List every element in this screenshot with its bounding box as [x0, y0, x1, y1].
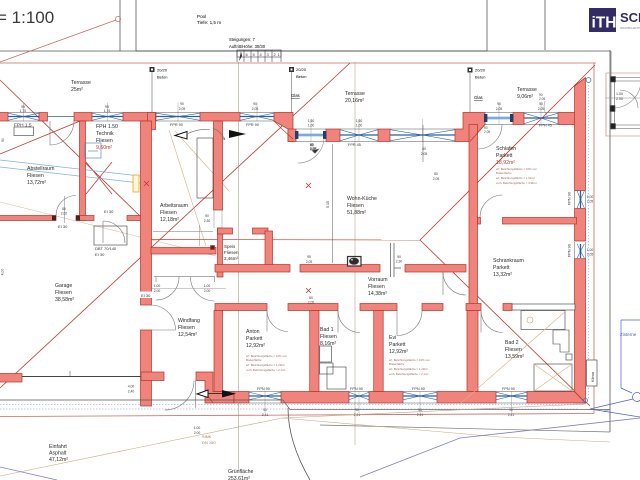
- klima box: [587, 360, 598, 386]
- svg-text:2,41: 2,41: [262, 413, 269, 417]
- wall miter lines: [205, 78, 586, 404]
- technik X: [86, 162, 112, 194]
- svg-text:Beton: Beton: [157, 75, 167, 80]
- red sub texts: [246, 167, 537, 376]
- svg-text:1,00: 1,00: [308, 124, 315, 128]
- bad2 tub: [534, 364, 572, 391]
- svg-text:EI 30: EI 30: [58, 224, 68, 229]
- svg-text:Bad 1: Bad 1: [320, 327, 334, 333]
- svg-text:EI 30: EI 30: [95, 252, 105, 257]
- door schlafen-schrankraum: [480, 195, 503, 218]
- garage long diagonal: [0, 63, 350, 388]
- svg-text:2,05: 2,05: [433, 177, 440, 181]
- svg-text:2,41: 2,41: [354, 413, 361, 417]
- svg-text:80: 80: [62, 207, 66, 211]
- svg-text:FPR 90: FPR 90: [246, 123, 259, 127]
- bedroom divider anton/bad1: [310, 311, 319, 392]
- svg-text:13,72m²: 13,72m²: [27, 180, 46, 186]
- svg-text:Beton: Beton: [296, 74, 306, 79]
- svg-text:1.00: 1.00: [204, 284, 211, 288]
- svg-text:90: 90: [397, 255, 401, 259]
- svg-text:1.00: 1.00: [194, 426, 201, 430]
- technik blue box: [85, 143, 101, 158]
- svg-text:Fliesen: Fliesen: [27, 173, 44, 179]
- svg-text:47,12m²: 47,12m²: [49, 457, 68, 463]
- dashed blue lines: [0, 82, 589, 409]
- svg-text:Wohn-Küche: Wohn-Küche: [347, 196, 377, 202]
- vertical wall abstell/technik: [80, 121, 86, 221]
- window S2: [349, 392, 369, 400]
- red property rectangle: [0, 63, 596, 417]
- svg-text:FPR 45: FPR 45: [348, 143, 361, 147]
- garage south wall stub: [0, 374, 22, 383]
- anton west wall: [214, 311, 223, 392]
- light blue utility diagonals: [0, 160, 140, 176]
- svg-text:9,60m²: 9,60m²: [96, 145, 112, 151]
- arbeitsraum desk: [197, 138, 213, 198]
- svg-text:90: 90: [539, 102, 543, 106]
- svg-text:1,00: 1,00: [587, 248, 594, 252]
- window A5: [240, 113, 274, 120]
- svg-text:80: 80: [434, 172, 438, 176]
- svg-text:vorh. Belichtungsfläche = 2,1m: vorh. Belichtungsfläche = 2,1m²: [246, 368, 285, 372]
- svg-text:20/20: 20/20: [157, 68, 168, 73]
- stove box on wall: [348, 257, 362, 267]
- svg-text:FPH 1.50: FPH 1.50: [96, 124, 118, 130]
- svg-text:SCH: SCH: [620, 10, 640, 25]
- schlafen south wall: [478, 218, 481, 225]
- windfang west long wall lower: [141, 330, 152, 406]
- garage north wall: [0, 216, 56, 221]
- svg-text:2,46m²: 2,46m²: [224, 256, 239, 261]
- svg-text:5.15: 5.15: [326, 201, 330, 208]
- svg-text:2.00: 2.00: [154, 289, 161, 293]
- svg-text:SINK: SINK: [202, 434, 212, 439]
- svg-text:Schrankraum: Schrankraum: [493, 258, 524, 264]
- door EI30 abstellraum-garage: [56, 196, 76, 216]
- svg-text:1,50: 1,50: [356, 119, 363, 123]
- wall B blocks: [288, 129, 296, 142]
- schrankraum south wall thin band: [512, 304, 575, 310]
- door garage-windfang: [151, 305, 176, 330]
- svg-text:DN 150: DN 150: [202, 440, 216, 445]
- window S4: [496, 392, 527, 400]
- svg-text:EI 30: EI 30: [141, 293, 151, 298]
- svg-text:iTH: iTH: [592, 15, 617, 32]
- svg-text:13,59m²: 13,59m²: [505, 354, 524, 360]
- svg-text:9,06m²: 9,06m²: [517, 94, 533, 100]
- door arc below B1 glass: [298, 138, 324, 163]
- section line vertical 1: [238, 62, 240, 470]
- bad2 wc niche: [553, 330, 569, 352]
- driveway curve: [288, 408, 310, 480]
- svg-text:2.00: 2.00: [616, 97, 623, 101]
- svg-text:Fliesen: Fliesen: [347, 203, 364, 209]
- svg-text:Steigungen: 7: Steigungen: 7: [229, 37, 256, 42]
- svg-text:90: 90: [497, 102, 501, 106]
- left sight diagonal: [0, 80, 141, 217]
- svg-text:90: 90: [509, 408, 513, 412]
- svg-text:Fliesen: Fliesen: [55, 290, 72, 296]
- svg-text:Terrasse: Terrasse: [345, 91, 365, 97]
- window B1: [295, 131, 326, 139]
- window R2: [577, 244, 584, 258]
- technik door glazing line: [48, 116, 75, 118]
- svg-text:8,16m²: 8,16m²: [320, 341, 336, 347]
- svg-text:FPH 1.5: FPH 1.5: [14, 123, 32, 129]
- schlafen north wall blocks: [513, 113, 524, 125]
- windfang double doors passage line: [154, 276, 215, 278]
- bad2 vanity: [521, 311, 565, 330]
- terrace post 3: [468, 68, 486, 113]
- door jamb caps garage: [52, 216, 56, 221]
- terrace post 2: [289, 67, 307, 129]
- door carport: [620, 90, 638, 108]
- svg-text:EI 30: EI 30: [104, 209, 114, 214]
- svg-text:Bad 2: Bad 2: [505, 340, 519, 346]
- windfang south wall: [141, 372, 164, 381]
- svg-text:Abstellraum: Abstellraum: [27, 166, 54, 172]
- svg-text:Schlafen: Schlafen: [496, 146, 516, 152]
- bad1 fixtures: [320, 346, 332, 362]
- svg-text:FPN 90: FPN 90: [568, 244, 572, 257]
- svg-text:Fliesen: Fliesen: [505, 347, 522, 353]
- door wohnkueche-corridor east: [443, 272, 466, 295]
- speis top stubs: [218, 228, 233, 234]
- svg-text:2.00: 2.00: [204, 289, 211, 293]
- svg-text:DBT 70/140: DBT 70/140: [95, 246, 117, 251]
- svg-text:Grünfläche: Grünfläche: [228, 469, 253, 475]
- svg-text:Fliesen: Fliesen: [178, 325, 195, 331]
- svg-text:FPN 90: FPN 90: [350, 387, 363, 391]
- svg-text:vorh. Belichtungsfläche = 2,1m: vorh. Belichtungsfläche = 2,1m²: [389, 372, 428, 376]
- svg-text:20/20: 20/20: [296, 67, 307, 72]
- red ray top-right to vertex: [420, 65, 595, 240]
- svg-text:IMMOBILIENTREUH: IMMOBILIENTREUH: [620, 26, 640, 30]
- svg-text:Windfang: Windfang: [178, 318, 200, 324]
- svg-text:1,76: 1,76: [20, 109, 27, 113]
- svg-text:Fliesen: Fliesen: [160, 210, 177, 216]
- svg-text:2,40: 2,40: [128, 390, 135, 394]
- window B3: [390, 130, 455, 141]
- svg-text:Vorraum: Vorraum: [368, 277, 388, 283]
- window labels: [14, 123, 572, 392]
- bedroom divider bad1/evi: [374, 311, 384, 392]
- svg-text:Parkett: Parkett: [389, 342, 406, 348]
- dim box under wall A1: [14, 127, 34, 136]
- svg-text:erf. Belichtungsfläche = 1,91m: erf. Belichtungsfläche = 1,91m²: [496, 176, 535, 180]
- svg-text:2,41: 2,41: [417, 413, 424, 417]
- door technik terrace: [50, 121, 74, 145]
- svg-text:2,41: 2,41: [508, 413, 515, 417]
- svg-text:2.00: 2.00: [194, 431, 201, 435]
- svg-text:2,05: 2,05: [587, 253, 594, 257]
- window B2: [340, 130, 378, 141]
- svg-text:90: 90: [355, 408, 359, 412]
- svg-text:FPN 90: FPN 90: [568, 192, 572, 205]
- svg-text:2,05: 2,05: [308, 301, 315, 305]
- svg-text:12,92m²: 12,92m²: [389, 349, 408, 355]
- svg-text:Arbeitsraum: Arbeitsraum: [160, 203, 188, 209]
- thin line speis top extension: [153, 231, 213, 233]
- blue lines right: [590, 320, 640, 417]
- dim line arbeitsraum: [198, 225, 200, 246]
- svg-text:Bodenfläche: Bodenfläche: [389, 362, 405, 366]
- terrace post 1: [150, 67, 168, 112]
- svg-text:Terrasse: Terrasse: [71, 80, 91, 86]
- svg-text:80: 80: [422, 147, 426, 151]
- red leader top-left with circle: [0, 16, 121, 62]
- corner block B-C: [455, 113, 485, 142]
- window R1: [577, 191, 584, 208]
- bedroom divider evi/bad2: [467, 311, 478, 392]
- svg-text:1,00: 1,00: [356, 124, 363, 128]
- svg-text:4,00: 4,00: [1, 269, 5, 276]
- svg-text:Fliesen: Fliesen: [96, 138, 113, 144]
- svg-text:1.00: 1.00: [154, 284, 161, 288]
- ITH logo: [589, 8, 640, 32]
- door windfang entry: [165, 381, 195, 411]
- svg-text:FPN 90: FPN 90: [257, 387, 270, 391]
- door anton: [267, 311, 288, 332]
- svg-text:20/20: 20/20: [475, 68, 486, 73]
- svg-text:38,58m²: 38,58m²: [55, 297, 74, 303]
- svg-text:90: 90: [180, 102, 184, 106]
- svg-text:95: 95: [307, 255, 311, 259]
- svg-text:2,05: 2,05: [421, 152, 428, 156]
- svg-text:Evi: Evi: [389, 335, 396, 341]
- svg-text:Pool: Pool: [197, 14, 206, 19]
- tan site line: [0, 404, 586, 476]
- window S1: [249, 392, 281, 400]
- R dim labels: [219, 93, 545, 141]
- svg-text:18,92m²: 18,92m²: [496, 160, 515, 166]
- speis left wall foot: [217, 265, 223, 277]
- red outline around carport: [606, 73, 640, 136]
- windfang west long wall upper: [141, 121, 152, 305]
- svg-text:2,30: 2,30: [204, 219, 211, 223]
- svg-text:FPH 45: FPH 45: [539, 124, 552, 128]
- arbeitsraum south wall: [151, 248, 216, 255]
- svg-text:Speis: Speis: [224, 244, 236, 249]
- yellow marker box: [133, 175, 139, 192]
- svg-text:Glas: Glas: [291, 93, 300, 98]
- svg-text:FPR 90: FPR 90: [170, 123, 183, 127]
- svg-text:2,05: 2,05: [252, 107, 259, 111]
- svg-text:4,00: 4,00: [128, 385, 135, 389]
- entrance arrows top: [175, 129, 246, 141]
- top wall A blocks: [0, 113, 8, 122]
- svg-text:90: 90: [253, 102, 257, 106]
- svg-text:Fliesen: Fliesen: [368, 284, 385, 290]
- svg-text:2,02: 2,02: [61, 212, 68, 216]
- svg-text:2,05: 2,05: [179, 107, 186, 111]
- svg-text:Asphalt: Asphalt: [49, 451, 67, 457]
- svg-text:FPN 90: FPN 90: [502, 387, 515, 391]
- svg-text:FPN 90: FPN 90: [412, 387, 425, 391]
- svg-text:Beton: Beton: [475, 75, 485, 80]
- svg-text:2,05: 2,05: [496, 107, 503, 111]
- svg-text:2.05: 2.05: [539, 97, 545, 101]
- carport structure right: [605, 51, 640, 129]
- svg-text:51,88m²: 51,88m²: [347, 210, 366, 216]
- door bad2: [481, 311, 503, 333]
- windfang double door right: [191, 277, 215, 301]
- svg-text:253,61m²: 253,61m²: [228, 476, 250, 480]
- door evi: [397, 311, 422, 336]
- arbeitsraum east T wall: [214, 121, 223, 210]
- corner block A-B: [274, 113, 293, 142]
- door bad1: [338, 311, 360, 333]
- red horizontal ray to vertex: [141, 239, 420, 242]
- abstellraum shallow diagonal: [0, 121, 80, 154]
- svg-text:vorh. Belichtungsfläche = 4,91: vorh. Belichtungsfläche = 4,91m²: [496, 181, 537, 185]
- entrance arrows bottom: [197, 390, 236, 398]
- svg-text:Parkett: Parkett: [496, 153, 513, 159]
- svg-text:13,32m²: 13,32m²: [493, 272, 512, 278]
- svg-text:Terrasse: Terrasse: [517, 87, 537, 93]
- small red x marks: [144, 181, 311, 293]
- right exterior wall: [575, 78, 586, 191]
- window face lines: [8, 113, 586, 404]
- svg-text:2,30: 2,30: [396, 260, 403, 264]
- svg-text:90: 90: [263, 408, 267, 412]
- svg-text:Anton: Anton: [246, 329, 260, 335]
- window C1: [484, 114, 513, 122]
- svg-text:Technik: Technik: [96, 131, 114, 137]
- svg-text:1,76: 1,76: [104, 109, 111, 113]
- svg-text:12,54m²: 12,54m²: [178, 332, 197, 338]
- svg-text:Tiefe: 1,5 m: Tiefe: 1,5 m: [197, 20, 221, 25]
- window S3: [403, 392, 437, 400]
- svg-text:Parkett: Parkett: [493, 265, 510, 271]
- svg-text:= 1:100: = 1:100: [0, 8, 54, 27]
- pool outline: [136, 0, 487, 51]
- corridor south wall segments: [215, 304, 267, 311]
- svg-text:Einfahrt: Einfahrt: [49, 444, 67, 450]
- dimension tiny stacks: [1, 102, 594, 435]
- svg-text:2,05: 2,05: [306, 260, 313, 264]
- windfang double door left: [156, 277, 179, 300]
- gray site line left: [0, 399, 283, 401]
- section line vertical 2: [354, 62, 356, 445]
- svg-text:Klima: Klima: [590, 371, 595, 382]
- svg-text:Fliesen: Fliesen: [320, 334, 337, 340]
- svg-text:14,38m²: 14,38m²: [368, 291, 387, 297]
- svg-text:Glas: Glas: [474, 95, 483, 100]
- svg-text:1,50: 1,50: [308, 119, 315, 123]
- svg-text:Bodenfläche: Bodenfläche: [246, 358, 262, 362]
- svg-text:12,92m²: 12,92m²: [246, 343, 265, 349]
- tan diagonals: [0, 202, 216, 256]
- svg-text:2,05: 2,05: [538, 107, 545, 111]
- svg-text:12,18m²: 12,18m²: [160, 217, 179, 223]
- speis left wall: [218, 228, 223, 271]
- svg-text:erf. Belichtungsfläche = 1,29m: erf. Belichtungsfläche = 1,29m²: [389, 367, 428, 371]
- garage door line: [22, 376, 141, 378]
- svg-text:1,00: 1,00: [587, 195, 594, 199]
- svg-text:90: 90: [205, 214, 209, 218]
- glass screen wohnkueche/vorraum: [391, 243, 402, 277]
- svg-text:Parkett: Parkett: [246, 336, 263, 342]
- svg-text:2.05: 2.05: [484, 130, 490, 134]
- svg-text:erf. Belichtungsfläche = 1,29m: erf. Belichtungsfläche = 1,29m²: [246, 363, 285, 367]
- DBT box garage: [94, 226, 127, 245]
- svg-text:Fliesen: Fliesen: [224, 250, 239, 255]
- gray site line right slanted: [283, 400, 610, 410]
- svg-text:1.00: 1.00: [616, 92, 623, 96]
- window A3: [92, 113, 123, 120]
- dim lines small: [333, 125, 424, 263]
- svg-text:Auftritt/Höhe: 30/30: Auftritt/Höhe: 30/30: [229, 44, 266, 49]
- window A1: [8, 113, 39, 120]
- window A4: [156, 113, 200, 120]
- schlafen west wall: [469, 125, 478, 305]
- speis right wall: [265, 231, 273, 265]
- window C2: [524, 113, 558, 124]
- svg-text:25m²: 25m²: [71, 87, 83, 93]
- svg-text:80: 80: [309, 296, 313, 300]
- bottom wall segments: [234, 392, 249, 404]
- svg-text:90: 90: [1, 138, 5, 142]
- vorraum north wall long: [215, 265, 290, 273]
- purple boundary: [0, 418, 640, 480]
- svg-text:20,16m²: 20,16m²: [345, 98, 364, 104]
- svg-text:Zisterne: Zisterne: [620, 332, 637, 337]
- red ray vertex to bottom-right: [420, 240, 590, 406]
- svg-text:Bodenfläche: Bodenfläche: [496, 171, 512, 175]
- svg-text:2,05: 2,05: [587, 200, 594, 204]
- svg-text:Garage: Garage: [55, 283, 72, 289]
- door schlafen terrace: [478, 125, 503, 150]
